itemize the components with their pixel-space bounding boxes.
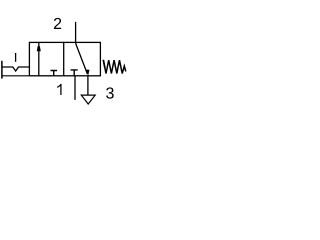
port label 1 bbox=[57, 84, 61, 95]
return spring bbox=[103, 60, 126, 74]
right box blocked port T bbox=[71, 70, 78, 76]
valve box divider bbox=[63, 42, 65, 75]
port label 2 bbox=[54, 18, 61, 29]
port 3 exhaust triangle bbox=[81, 95, 95, 104]
port label 3 bbox=[106, 87, 114, 98]
wire port 3 line bbox=[87, 76, 89, 95]
detent pin bbox=[15, 53, 17, 62]
left box arrowhead bbox=[37, 46, 41, 51]
right box diagonal arrowhead bbox=[86, 70, 89, 76]
right box flow passage 2 to 3 diagonal bbox=[76, 43, 88, 74]
wire port 1 stub bbox=[74, 76, 76, 100]
wire port 2 line bbox=[75, 22, 77, 43]
valve body outline bbox=[29, 42, 100, 75]
left box flow passage 1 to 2 bbox=[38, 42, 40, 75]
actuator push button end bar bbox=[1, 61, 3, 79]
left box blocked port T bbox=[51, 71, 58, 76]
actuator top rod with detent notch bbox=[2, 67, 30, 71]
return spring attach stroke bbox=[103, 60, 105, 68]
actuator bottom rod bbox=[2, 75, 30, 77]
